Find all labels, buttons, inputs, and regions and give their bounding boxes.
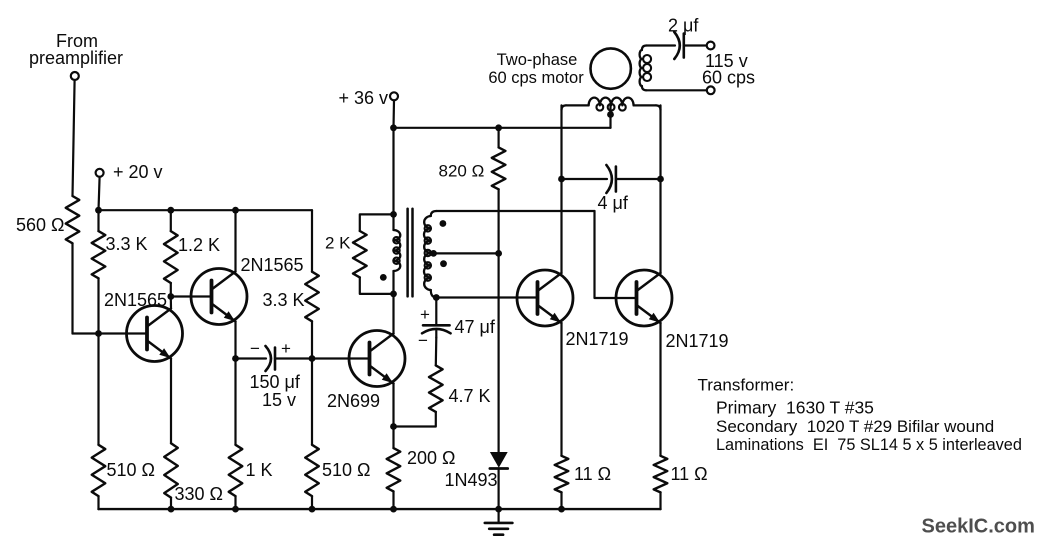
svg-text:+ 20 v: + 20 v xyxy=(113,162,163,182)
svg-text:Secondary 1020 T #29 Bifilar: Secondary 1020 T #29 Bifilar wound xyxy=(716,417,994,436)
svg-text:2N699: 2N699 xyxy=(327,391,380,411)
svg-text:510 Ω: 510 Ω xyxy=(322,460,371,480)
svg-text:2N1565: 2N1565 xyxy=(241,255,304,275)
svg-text:preamplifier: preamplifier xyxy=(29,48,123,68)
svg-text:60 cps motor: 60 cps motor xyxy=(488,69,584,87)
svg-text:2 μf: 2 μf xyxy=(668,16,699,36)
svg-text:SeekIC.com: SeekIC.com xyxy=(922,516,1035,538)
svg-text:3.3 K: 3.3 K xyxy=(263,290,305,310)
svg-text:−: − xyxy=(250,339,260,358)
svg-text:60 cps: 60 cps xyxy=(702,68,755,88)
svg-text:11 Ω: 11 Ω xyxy=(574,464,611,484)
svg-text:200 Ω: 200 Ω xyxy=(407,448,456,468)
svg-text:2 K: 2 K xyxy=(325,234,351,253)
svg-text:+: + xyxy=(281,339,291,358)
svg-text:3.3 K: 3.3 K xyxy=(106,234,148,254)
svg-text:150 μf: 150 μf xyxy=(250,372,301,392)
svg-text:11 Ω: 11 Ω xyxy=(671,464,708,484)
svg-text:510 Ω: 510 Ω xyxy=(107,460,156,480)
svg-text:560 Ω: 560 Ω xyxy=(16,215,65,235)
svg-text:4.7 K: 4.7 K xyxy=(449,386,491,406)
svg-text:2N1719: 2N1719 xyxy=(666,331,729,351)
svg-text:+: + xyxy=(420,305,430,324)
svg-text:1 K: 1 K xyxy=(246,460,273,480)
svg-text:1.2 K: 1.2 K xyxy=(178,235,220,255)
svg-text:−: − xyxy=(418,331,428,350)
svg-text:Primary 1630 T #35: Primary 1630 T #35 xyxy=(716,398,874,418)
svg-text:Laminations EI 75 SL14 5 x 5: Laminations EI 75 SL14 5 x 5 interleaved xyxy=(716,436,1022,454)
svg-text:2N1719: 2N1719 xyxy=(566,329,629,349)
svg-text:1N493: 1N493 xyxy=(445,470,498,490)
svg-text:4 μf: 4 μf xyxy=(598,193,629,213)
svg-text:15 v: 15 v xyxy=(262,390,296,410)
svg-text:820 Ω: 820 Ω xyxy=(439,162,485,181)
svg-text:Transformer:: Transformer: xyxy=(698,376,795,395)
svg-text:Two-phase: Two-phase xyxy=(497,51,578,69)
svg-text:47 μf: 47 μf xyxy=(455,317,496,337)
svg-text:+ 36 v: + 36 v xyxy=(339,88,389,108)
svg-text:330 Ω: 330 Ω xyxy=(175,484,224,504)
